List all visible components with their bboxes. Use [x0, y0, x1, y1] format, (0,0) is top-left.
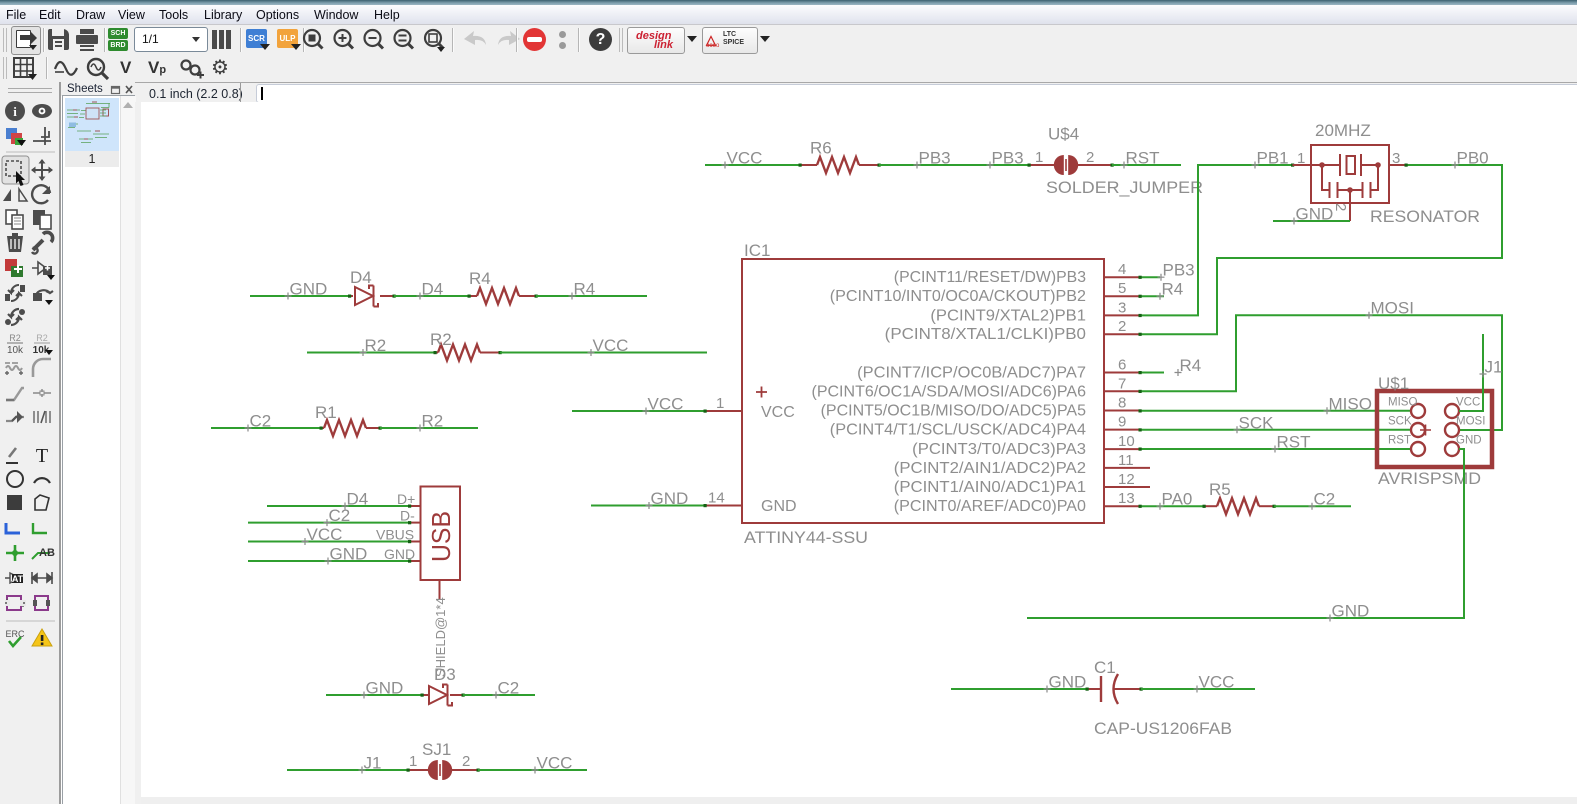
resonator 20MHZ U$3 [1293, 145, 1407, 221]
wire net C2 pin13 [1274, 505, 1351, 507]
resistor R5 [1204, 505, 1217, 507]
SCH/BRD switch icon [108, 28, 128, 51]
sheet list box [62, 95, 135, 804]
IC1 plus mark [756, 387, 767, 398]
svg-text:R1: R1 [315, 403, 337, 422]
svg-text:RESONATOR: RESONATOR [1370, 207, 1480, 226]
label MISO [1324, 407, 1331, 414]
sheet thumbnail [65, 98, 119, 151]
wire net PB3 pin4 [1140, 276, 1160, 278]
grid tool [13, 57, 41, 81]
U$1 pad MISO [1411, 404, 1425, 418]
svg-text:GND: GND [366, 679, 404, 698]
svg-text:D4: D4 [350, 268, 372, 287]
svg-text:VCC: VCC [648, 395, 684, 414]
options dots [559, 31, 566, 38]
label PB1 [1252, 162, 1259, 169]
svg-text:SCK: SCK [1388, 416, 1412, 428]
label PB0 [1452, 162, 1459, 169]
svg-text:8: 8 [1118, 395, 1126, 412]
left tool sidebar [0, 82, 61, 804]
label PB3 [914, 162, 921, 169]
wire net RST [1112, 164, 1181, 166]
label GND (C1) [1044, 686, 1051, 693]
svg-text:C2: C2 [250, 412, 272, 431]
label GND (resonator) [1291, 218, 1298, 225]
diode D3 [422, 694, 429, 696]
label PB3 (2) [987, 162, 994, 169]
svg-text:12: 12 [1118, 471, 1135, 488]
wire net PB0 [1140, 165, 1502, 334]
svg-text:20MHZ: 20MHZ [1315, 121, 1371, 140]
svg-text:2: 2 [1086, 149, 1094, 166]
USB connector box [421, 487, 461, 581]
svg-text:10: 10 [1118, 433, 1135, 450]
svg-text:J1: J1 [1485, 358, 1503, 377]
save tool [48, 29, 69, 50]
wire net VCC from SJ1 [478, 769, 587, 771]
svg-text:R4: R4 [574, 280, 596, 299]
LTC SPICE button [702, 27, 758, 54]
toolbar row 2 [0, 55, 1577, 82]
U$1 pad GND [1445, 442, 1459, 456]
label J1 [1480, 371, 1487, 378]
svg-text:(PCINT4/T1/SCL/USCK/ADC4)PA4: (PCINT4/T1/SCL/USCK/ADC4)PA4 [830, 422, 1086, 439]
svg-text:PA0: PA0 [1162, 490, 1193, 509]
svg-text:D3: D3 [434, 665, 456, 684]
U$1 pad RST [1411, 442, 1425, 456]
IC1 pin 5 (PCINT10/INT0/OC0A/CKOUT)PB2 [830, 280, 1140, 305]
svg-text:VBUS: VBUS [376, 527, 414, 543]
svg-text:R4: R4 [1180, 356, 1202, 375]
svg-text:(PCINT10/INT0/OC0A/CKOUT)PB2: (PCINT10/INT0/OC0A/CKOUT)PB2 [830, 288, 1086, 305]
svg-text:R5: R5 [1209, 480, 1231, 499]
svg-text:VCC: VCC [593, 336, 629, 355]
label R2 (net) [360, 349, 367, 356]
label VCC (row2) [588, 349, 595, 356]
svg-text:1: 1 [716, 395, 724, 412]
svg-text:MISO: MISO [1388, 397, 1417, 409]
resistor R5 body [1217, 498, 1259, 514]
svg-text:D4: D4 [422, 280, 444, 299]
svg-text:GND: GND [1456, 435, 1482, 447]
svg-text:USB: USB [426, 511, 456, 562]
label J1 (net) [359, 767, 366, 774]
wire usb VBUS [248, 541, 410, 543]
svg-text:(PCINT5/OC1B/MISO/DO/ADC5)PA5: (PCINT5/OC1B/MISO/DO/ADC5)PA5 [821, 403, 1087, 420]
resistor R1 body [324, 420, 366, 436]
svg-text:SJ1: SJ1 [422, 740, 451, 759]
wire net PB1 from IC pin 3 to resonator [1140, 165, 1293, 315]
link tool [178, 57, 206, 81]
USB pin stub VBUS [410, 541, 421, 543]
resistor R6 [800, 164, 817, 166]
svg-text:RST: RST [1277, 433, 1311, 452]
script tool SCR [246, 29, 267, 48]
V probe tool [120, 58, 131, 78]
label VCC (usb) [302, 538, 309, 545]
IC1 pin 13 (PCINT0/AREF/ADC0)PA0 [894, 490, 1140, 515]
svg-text:13: 13 [1118, 490, 1135, 507]
svg-text:GND: GND [651, 489, 689, 508]
label GND (bottom) [1327, 615, 1334, 622]
solder jumper SJ1 body [428, 760, 452, 780]
svg-text:(PCINT7/ICP/OC0B/ADC7)PA7: (PCINT7/ICP/OC0B/ADC7)PA7 [857, 365, 1086, 382]
IC1 pin 14 GND [705, 490, 742, 507]
wire net D4 mid [394, 295, 469, 297]
svg-text:ATTINY44-SSU: ATTINY44-SSU [744, 528, 868, 547]
diode D4 body [355, 286, 378, 307]
sheet number cell [65, 151, 119, 167]
capacitor C1 [1087, 688, 1101, 690]
solder jumper U$4 [1029, 164, 1054, 166]
wire net C2 in [211, 427, 321, 429]
simulate sine tool [53, 57, 79, 81]
wire net SCK [1140, 429, 1411, 431]
svg-text:GND: GND [1332, 602, 1370, 621]
print tool [76, 29, 98, 50]
svg-text:RST: RST [1388, 435, 1411, 447]
svg-text:14: 14 [708, 490, 725, 507]
text cursor [261, 87, 263, 100]
label D4 (net) [417, 293, 424, 300]
svg-text:RST: RST [1126, 149, 1160, 168]
canvas bottom scrollbar strip [141, 797, 1577, 804]
label RST [1121, 162, 1128, 169]
wire net GND resonator [1273, 220, 1350, 222]
svg-text:2: 2 [462, 753, 470, 770]
label MOSI [1366, 312, 1373, 319]
coordinate display [149, 87, 243, 101]
svg-text:2: 2 [1118, 318, 1126, 335]
svg-text:1: 1 [409, 753, 417, 770]
svg-text:U$1: U$1 [1378, 374, 1409, 393]
svg-text:7: 7 [1118, 375, 1126, 392]
sheets panel [61, 82, 135, 804]
svg-text:C2: C2 [498, 679, 520, 698]
svg-text:GND: GND [1049, 673, 1087, 692]
wire net GND to D4 [250, 295, 350, 297]
resistor R4 body [477, 288, 519, 304]
svg-text:C1: C1 [1094, 658, 1116, 677]
label GND (pin14) [646, 502, 653, 509]
window title strip [0, 0, 1577, 5]
label PB3 (pin4) [1158, 274, 1165, 281]
IC1 pin 4 (PCINT11/RESET/DW)PB3 [894, 261, 1140, 286]
wire net R4 pin5 [1140, 295, 1164, 297]
help tool [589, 28, 612, 51]
svg-text:5: 5 [1118, 280, 1126, 297]
svg-text:9: 9 [1118, 414, 1126, 431]
USB pin stub D- [410, 522, 421, 524]
wire net VCC from C1 [1141, 688, 1255, 690]
wire net R4 pin6 [1140, 372, 1164, 374]
toolbar row 1 [0, 25, 1577, 55]
svg-text:(PCINT11/RESET/DW)PB3: (PCINT11/RESET/DW)PB3 [894, 269, 1086, 286]
svg-text:GND: GND [290, 280, 328, 299]
svg-text:PB0: PB0 [1457, 149, 1489, 168]
open file tool (active) [11, 26, 41, 55]
label VCC [722, 162, 729, 169]
designlink button [627, 27, 685, 54]
U$1 origin cross [1420, 425, 1431, 436]
resistor R2 body [438, 345, 480, 361]
IC1 pin 9 (PCINT4/T1/SCL/USCK/ADC4)PA4 [830, 414, 1140, 439]
sheet combobox [134, 27, 208, 52]
svg-text:6: 6 [1118, 357, 1126, 374]
svg-text:VCC: VCC [761, 404, 795, 421]
label VCC (pin1) [643, 408, 650, 415]
svg-text:MOSI: MOSI [1371, 299, 1414, 318]
wire net RST pin10 [1140, 448, 1411, 450]
label D4 (usb) [342, 503, 349, 510]
Vp probe tool [148, 58, 166, 78]
svg-text:PB1: PB1 [1257, 149, 1289, 168]
svg-text:R2: R2 [430, 330, 452, 349]
wire usb D- [248, 522, 410, 524]
label PA0 [1157, 503, 1164, 510]
resistor R1 [321, 427, 324, 429]
label GND [285, 293, 292, 300]
svg-text:GND: GND [330, 545, 368, 564]
svg-text:VCC: VCC [307, 525, 343, 544]
svg-text:(PCINT9/XTAL2)PB1: (PCINT9/XTAL2)PB1 [930, 307, 1086, 324]
svg-text:R4: R4 [469, 269, 491, 288]
svg-text:D+: D+ [397, 491, 415, 507]
sidebar icons [0, 96, 61, 796]
svg-text:PB3: PB3 [919, 149, 951, 168]
probe loupe tool [85, 57, 111, 81]
wire net VCC pin1 [572, 410, 705, 412]
label VCC (C1) [1194, 686, 1201, 693]
svg-text:3: 3 [1118, 299, 1126, 316]
IC1 pin 7 (PCINT6/OC1A/SDA/MOSI/ADC6)PA6 [812, 375, 1141, 400]
svg-text:VCC: VCC [1199, 673, 1235, 692]
svg-text:GND: GND [1296, 205, 1334, 224]
svg-text:4: 4 [1118, 261, 1126, 278]
resistor R2 [435, 352, 438, 354]
U$1 pad MOSI [1445, 423, 1459, 437]
svg-text:R6: R6 [810, 139, 832, 158]
connector U$1 AVRISPSMD box [1377, 391, 1492, 467]
svg-text:1: 1 [1297, 150, 1305, 167]
svg-text:MOSI: MOSI [1456, 416, 1485, 428]
IC U1 ATTINY44-SSU box [742, 259, 1104, 523]
svg-text:SCK: SCK [1239, 413, 1275, 432]
wire net J1 [1459, 334, 1483, 411]
svg-text:AVRISPSMD: AVRISPSMD [1378, 469, 1481, 488]
wire net GND bottom [1027, 449, 1464, 618]
label C2 (usb) [324, 519, 331, 526]
svg-text:GND: GND [761, 498, 797, 515]
svg-text:PB3: PB3 [1163, 261, 1195, 280]
svg-text:R2: R2 [365, 336, 387, 355]
IC1 pin 6 (PCINT7/ICP/OC0B/ADC7)PA7 [857, 357, 1140, 382]
label SCK [1234, 426, 1241, 433]
ULP tool [277, 29, 298, 48]
wire net C2 from D3 [463, 694, 535, 696]
svg-text:(PCINT1/AIN0/ADC1)PA1: (PCINT1/AIN0/ADC1)PA1 [894, 479, 1086, 496]
diode D4 [350, 295, 354, 297]
wire net GND pin14 [591, 505, 705, 507]
resistor R4 [469, 295, 477, 297]
menu bar [0, 5, 1577, 25]
label C2 (D3) [493, 692, 500, 699]
svg-text:R4: R4 [1162, 280, 1184, 299]
svg-text:(PCINT2/AIN1/ADC2)PA2: (PCINT2/AIN1/ADC2)PA2 [894, 460, 1086, 477]
svg-text:VCC: VCC [1456, 397, 1480, 409]
wire net R2 out row3 [380, 427, 478, 429]
library tool [212, 29, 233, 49]
wire net VCC to R6 [705, 164, 800, 166]
label C2 (net) [245, 425, 252, 432]
svg-text:U$4: U$4 [1048, 125, 1079, 144]
wire net GND to C1 [951, 688, 1087, 690]
svg-text:VCC: VCC [727, 149, 763, 168]
label R4 (pin6) [1175, 369, 1182, 376]
label R4 (pin5) [1157, 293, 1164, 300]
wire net PB3 to jumper [879, 164, 1029, 166]
command bar row [0, 82, 1577, 103]
svg-text:11: 11 [1118, 452, 1134, 469]
svg-text:(PCINT0/AREF/ADC0)PA0: (PCINT0/AREF/ADC0)PA0 [894, 498, 1086, 515]
svg-text:D-: D- [400, 508, 415, 524]
wire usb GND [248, 560, 410, 562]
U$1 pad VCC [1445, 404, 1459, 418]
wire net VCC row2 [500, 352, 707, 354]
label VCC (SJ1) [532, 767, 539, 774]
svg-text:CAP-US1206FAB: CAP-US1206FAB [1094, 719, 1232, 738]
svg-text:VCC: VCC [537, 754, 573, 773]
svg-text:GND: GND [384, 546, 415, 562]
svg-text:R2: R2 [422, 412, 444, 431]
IC1 pin 2 (PCINT8/XTAL1/CLKI)PB0 [885, 318, 1140, 343]
wire net GND to D3 [326, 694, 422, 696]
svg-text:(PCINT6/OC1A/SDA/MOSI/ADC6)PA6: (PCINT6/OC1A/SDA/MOSI/ADC6)PA6 [812, 383, 1087, 400]
label C2 (pin13) [1309, 503, 1316, 510]
zoom toolbar icons [0, 26, 470, 54]
label GND (D3) [361, 692, 368, 699]
undo redo [458, 26, 568, 54]
wire net J1 to SJ1 [287, 769, 408, 771]
wire net R2 in [307, 352, 435, 354]
IC1 pin 11 (PCINT2/AIN1/ADC2)PA2 [894, 452, 1150, 477]
svg-text:J1: J1 [364, 754, 382, 773]
svg-text:C2: C2 [1314, 490, 1336, 509]
label RST (pin10) [1272, 446, 1279, 453]
svg-text:IC1: IC1 [744, 241, 770, 260]
IC1 pin 1 VCC [705, 395, 742, 412]
label R4 (net) [569, 293, 576, 300]
USB pin stub D+ [410, 505, 421, 507]
svg-text:(PCINT8/XTAL1/CLKI)PB0: (PCINT8/XTAL1/CLKI)PB0 [885, 326, 1086, 343]
diode D3 body [429, 685, 452, 706]
settings gear tool [211, 55, 229, 80]
U$1 pad SCK [1411, 423, 1425, 437]
label R2 (net row3) [417, 425, 424, 432]
USB shield pin [439, 580, 441, 599]
IC1 pin 12 (PCINT1/AIN0/ADC1)PA1 [894, 471, 1150, 496]
wire net PA0 [1140, 505, 1204, 507]
panel scrollbar [120, 96, 136, 804]
svg-text:2: 2 [1332, 203, 1349, 211]
svg-text:SOLDER_JUMPER: SOLDER_JUMPER [1046, 179, 1203, 197]
wire net MOSI [1140, 315, 1502, 430]
label GND (usb) [325, 558, 332, 565]
wire usb D+ [267, 505, 410, 507]
IC1 pin 3 (PCINT9/XTAL2)PB1 [930, 299, 1140, 324]
svg-text:MISO: MISO [1329, 394, 1372, 413]
IC1 pin 10 (PCINT3/T0/ADC3)PA3 [912, 433, 1140, 458]
solder jumper U$4 body [1054, 155, 1078, 175]
svg-text:3: 3 [1392, 150, 1400, 167]
USB pin stub GND [410, 560, 421, 562]
IC1 pin 8 (PCINT5/OC1B/MISO/DO/ADC5)PA5 [821, 395, 1140, 420]
schematic canvas [135, 102, 1577, 804]
wire net R4 out [536, 295, 647, 297]
svg-text:PB3: PB3 [992, 149, 1024, 168]
svg-text:(PCINT3/T0/ADC3)PA3: (PCINT3/T0/ADC3)PA3 [912, 441, 1086, 458]
svg-text:C2: C2 [329, 506, 351, 525]
solder jumper SJ1 [408, 769, 428, 771]
command input field [256, 84, 1577, 103]
resistor R6 body [817, 157, 859, 173]
svg-text:1: 1 [1035, 149, 1043, 166]
wire net MISO [1140, 410, 1411, 412]
stop tool [523, 28, 546, 51]
